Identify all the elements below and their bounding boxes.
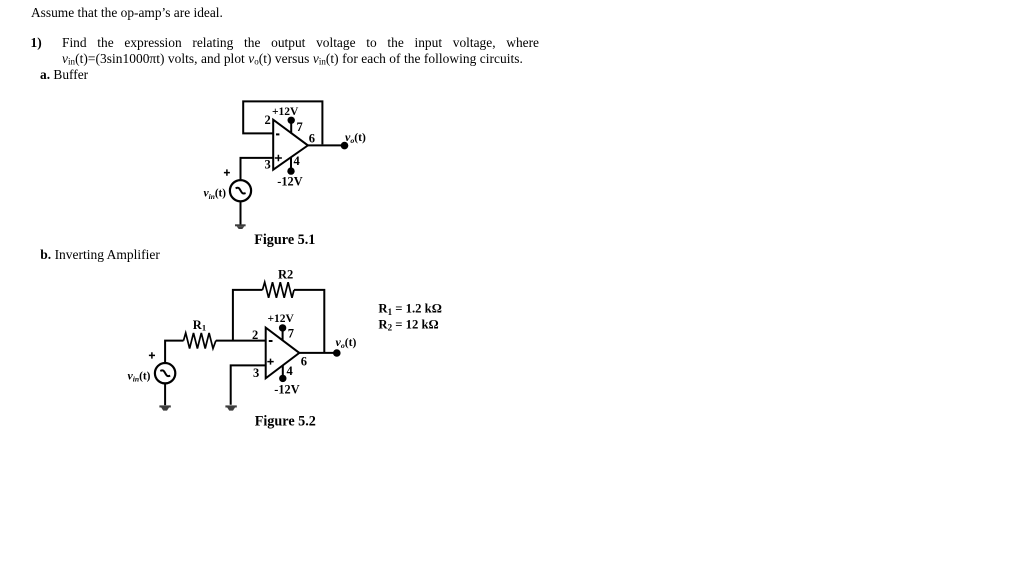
node dot pin 4 <box>287 167 294 174</box>
wire: feedback top right segment down to output <box>294 290 324 353</box>
svg-text:6: 6 <box>309 132 315 146</box>
pin 7 stub (+12V) <box>282 329 284 341</box>
sine symbol inside source <box>236 188 246 194</box>
svg-text:Figure 5.1: Figure 5.1 <box>254 232 315 248</box>
resistor R1 zigzag <box>184 333 216 349</box>
svg-text:2: 2 <box>265 113 271 127</box>
svg-text:R1: R1 <box>193 318 206 333</box>
paragraph line 1 justified <box>62 35 539 51</box>
op-amp plus sign <box>275 155 282 162</box>
wire: vin source to ground <box>164 383 166 405</box>
op-amp minus sign <box>269 340 273 342</box>
wire: op-amp output to vo node <box>299 352 337 354</box>
top instruction text <box>31 5 223 21</box>
svg-text:vo(t): vo(t) <box>336 335 357 350</box>
wire: R1 to inverting input pin 2 <box>216 340 266 342</box>
polarity + of Vin <box>224 169 230 175</box>
wire: feedback top left segment <box>233 290 263 341</box>
svg-text:R1 = 1.2 kΩ: R1 = 1.2 kΩ <box>378 302 442 317</box>
node dot pin 7 <box>288 117 295 124</box>
node dot pin 4 <box>279 375 286 382</box>
wire: vin source to R1 <box>165 341 183 363</box>
pin 4 stub (-12V) <box>282 365 284 378</box>
node dot pin 7 <box>279 324 286 331</box>
svg-text:3: 3 <box>253 366 259 380</box>
op-amp U2 triangle <box>266 328 300 379</box>
svg-text:2: 2 <box>252 328 258 342</box>
svg-text:3: 3 <box>265 157 271 171</box>
source Vin circle <box>230 180 251 201</box>
polarity + of Vin <box>149 352 155 358</box>
svg-text:+12V: +12V <box>268 313 295 325</box>
svg-text:R2: R2 <box>278 267 293 281</box>
op-amp minus sign <box>276 133 279 135</box>
svg-text:R2 = 12 kΩ: R2 = 12 kΩ <box>378 318 438 333</box>
op-amp plus sign <box>267 359 273 365</box>
svg-text:-12V: -12V <box>274 383 299 397</box>
pin 4 stub (-12V) <box>290 158 292 171</box>
wire: feedback loop output to inverting input <box>243 101 322 144</box>
svg-text:+12V: +12V <box>272 106 299 118</box>
svg-text:vo(t): vo(t) <box>345 130 366 145</box>
svg-text:4: 4 <box>287 364 294 378</box>
wire: vin source to non-inverting input pin 3 <box>241 158 274 180</box>
node dot vo output <box>333 349 341 357</box>
svg-text:7: 7 <box>288 326 294 340</box>
svg-text:4: 4 <box>294 154 301 168</box>
svg-text:7: 7 <box>297 120 303 134</box>
op-amp U1 triangle <box>273 120 308 170</box>
pin 7 stub (+12V) <box>290 121 292 134</box>
source Vin circle <box>155 363 175 383</box>
wire: op-amp output to vo node <box>308 144 345 146</box>
svg-text:6: 6 <box>301 355 307 369</box>
item a. Buffer <box>40 67 88 83</box>
svg-text:Figure 5.2: Figure 5.2 <box>255 414 316 430</box>
ground symbol (Vin of figure 5.2) <box>159 405 170 410</box>
item number 1) <box>31 35 42 51</box>
sine symbol inside source <box>160 370 170 376</box>
ground symbol (pin 3 of figure 5.2) <box>225 405 236 410</box>
node dot vo output <box>341 142 349 150</box>
svg-text:vin(t): vin(t) <box>204 187 227 201</box>
paragraph line 2 <box>62 51 523 67</box>
svg-text:vin(t): vin(t) <box>128 368 151 383</box>
wire: pin 3 to ground <box>231 365 266 404</box>
resistor R2 zigzag <box>263 282 295 298</box>
item b. Inverting Amplifier <box>40 247 160 263</box>
ground symbol (Vin of figure 5.1) <box>235 224 246 229</box>
wire: vin source to ground <box>240 201 242 225</box>
svg-text:-12V: -12V <box>277 175 302 189</box>
